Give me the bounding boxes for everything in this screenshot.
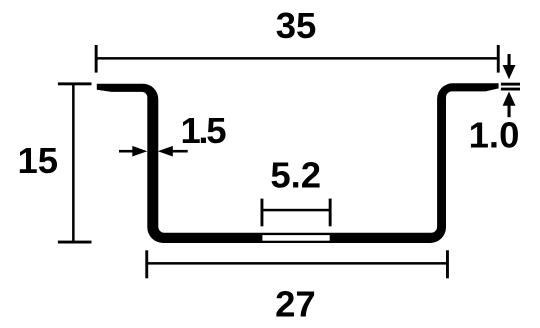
- svg-text:27: 27: [275, 283, 316, 324]
- dimension 5.2 line: [262, 209, 330, 212]
- slot opening in profile bottom: [262, 235, 329, 241]
- dimension 15 line: [72, 84, 75, 242]
- dimension 1.0 down arrow: [508, 54, 511, 66]
- dimension 35 right tick: [497, 45, 500, 73]
- svg-text:5.2: 5.2: [270, 155, 321, 196]
- dimension 15 bottom tick: [58, 241, 92, 244]
- dimension 27 left tick: [145, 250, 148, 278]
- dimension 27 line: [147, 262, 448, 265]
- dimension 1.0 extension line bottom: [501, 88, 520, 91]
- dimension 5.2 right tick: [329, 199, 332, 227]
- dimension 1.5 right arrow: [158, 146, 173, 157]
- dimension 35 line: [96, 57, 498, 60]
- svg-text:1.5: 1.5: [181, 110, 227, 151]
- dimension 27 right tick: [446, 250, 449, 278]
- dimension 1.5 left arrow: [119, 150, 134, 153]
- svg-text:35: 35: [276, 5, 317, 46]
- dimension 15 top tick: [58, 82, 92, 85]
- dimension 1.0 extension line top: [501, 83, 520, 86]
- svg-text:15: 15: [17, 140, 58, 181]
- dimension 1.0 up arrow: [503, 92, 516, 106]
- dimension 5.2 left tick: [261, 199, 264, 227]
- dimension 35 left tick: [95, 45, 98, 73]
- DIN rail top-hat profile cross-section: [97, 83, 499, 243]
- svg-text:1.0: 1.0: [469, 115, 520, 156]
